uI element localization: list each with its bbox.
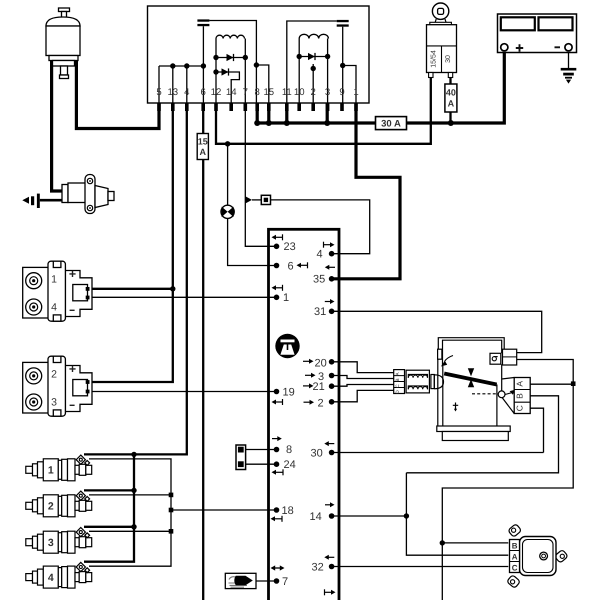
svg-text:3: 3 <box>325 87 330 98</box>
svg-text:30: 30 <box>445 55 452 63</box>
svg-text:D: D <box>395 390 401 394</box>
svg-text:6: 6 <box>288 260 294 272</box>
svg-text:30: 30 <box>311 447 323 459</box>
svg-text:4: 4 <box>317 249 323 261</box>
svg-text:23: 23 <box>284 241 296 253</box>
svg-text:C: C <box>514 405 524 411</box>
svg-text:7: 7 <box>282 576 288 588</box>
svg-text:B: B <box>514 393 524 399</box>
svg-text:20: 20 <box>315 357 327 369</box>
svg-text:21: 21 <box>313 381 325 393</box>
svg-text:3: 3 <box>48 537 54 549</box>
svg-text:40: 40 <box>446 88 456 98</box>
svg-text:A: A <box>512 552 518 561</box>
svg-text:8: 8 <box>286 444 292 456</box>
svg-text:4: 4 <box>51 302 57 314</box>
svg-text:19: 19 <box>283 386 295 398</box>
svg-text:7: 7 <box>243 87 248 98</box>
svg-text:31: 31 <box>314 306 326 318</box>
svg-text:12: 12 <box>211 87 222 98</box>
svg-text:A: A <box>200 147 207 157</box>
svg-text:30 A: 30 A <box>381 118 401 129</box>
svg-text:6: 6 <box>201 87 206 98</box>
svg-text:2: 2 <box>318 397 324 409</box>
svg-text:15: 15 <box>198 137 208 147</box>
svg-text:15: 15 <box>263 87 274 98</box>
svg-text:4: 4 <box>184 87 190 98</box>
svg-text:A: A <box>514 381 524 387</box>
svg-text:14: 14 <box>310 511 322 523</box>
svg-text:B: B <box>512 541 518 550</box>
svg-text:35: 35 <box>313 274 325 286</box>
svg-text:1: 1 <box>51 274 57 286</box>
svg-text:9: 9 <box>339 87 344 98</box>
svg-text:C: C <box>512 563 518 572</box>
svg-text:15/54: 15/54 <box>430 50 438 68</box>
svg-text:B: B <box>395 378 401 381</box>
svg-text:14: 14 <box>226 87 237 98</box>
svg-text:5: 5 <box>156 87 161 98</box>
svg-text:18: 18 <box>282 505 294 517</box>
svg-text:8: 8 <box>255 87 260 98</box>
svg-text:A: A <box>448 99 455 109</box>
svg-text:1: 1 <box>353 87 358 98</box>
svg-text:2: 2 <box>48 501 54 513</box>
svg-text:24: 24 <box>284 459 296 471</box>
svg-text:4: 4 <box>48 572 54 584</box>
svg-text:1: 1 <box>283 292 289 304</box>
svg-text:2: 2 <box>311 87 316 98</box>
svg-text:32: 32 <box>312 561 324 573</box>
svg-text:13: 13 <box>167 87 178 98</box>
svg-text:C: C <box>395 384 401 388</box>
svg-text:2: 2 <box>51 369 57 381</box>
svg-text:11: 11 <box>282 87 292 98</box>
svg-text:10: 10 <box>294 87 305 98</box>
svg-text:3: 3 <box>51 397 57 409</box>
svg-text:1: 1 <box>48 465 54 477</box>
